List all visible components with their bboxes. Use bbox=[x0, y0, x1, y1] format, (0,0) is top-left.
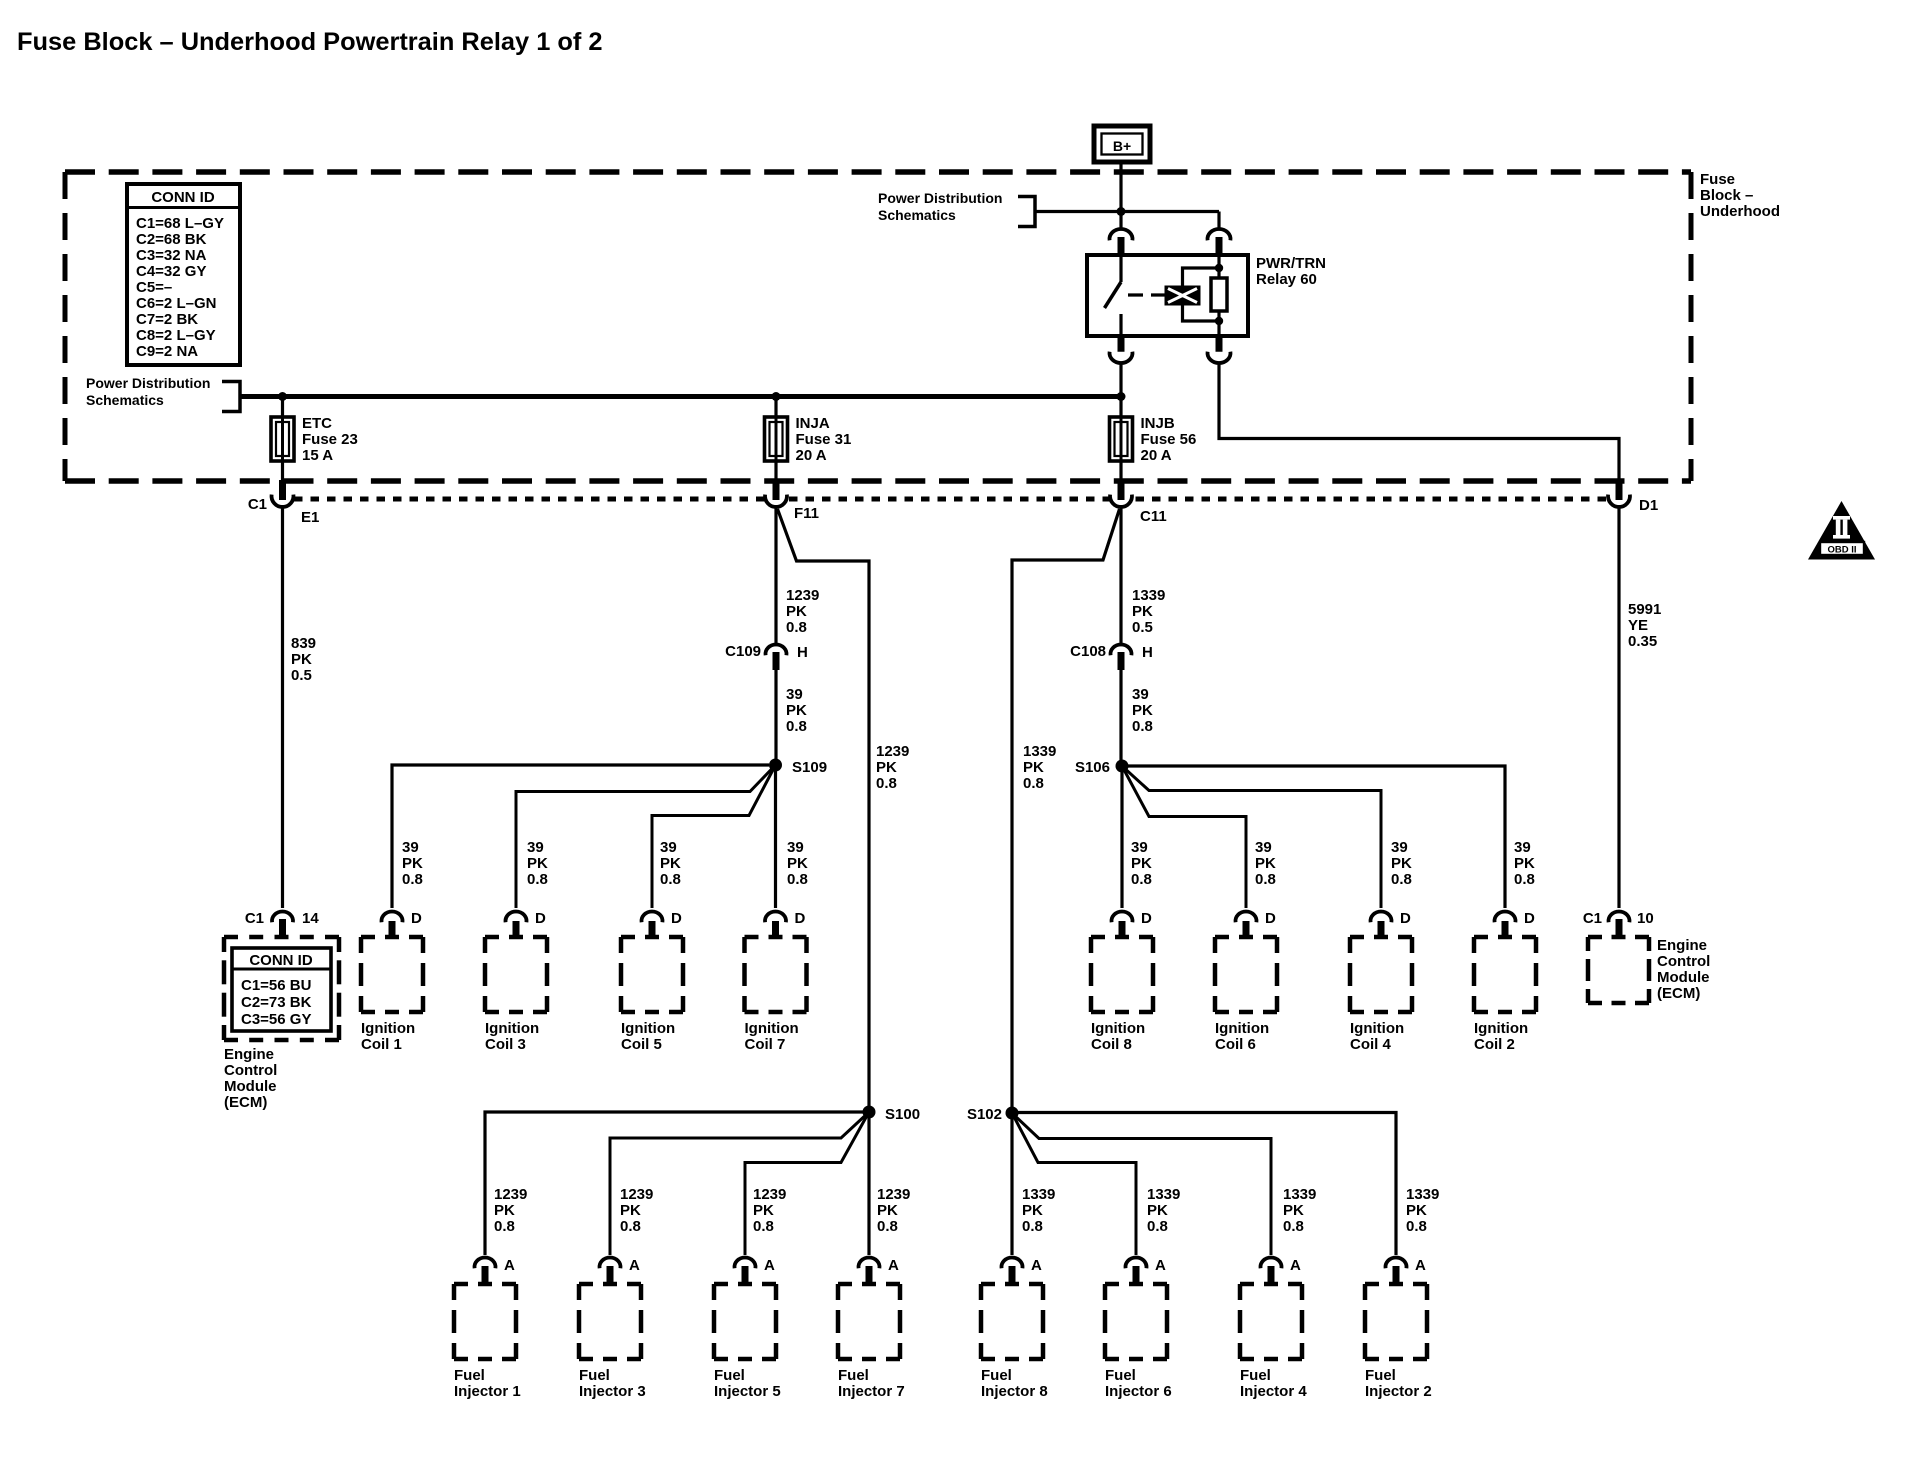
svg-text:Fuse: Fuse bbox=[1700, 171, 1735, 188]
svg-text:CONN ID: CONN ID bbox=[151, 189, 215, 206]
wire S100 to fuel injector 5 bbox=[745, 1112, 869, 1255]
svg-text:PK: PK bbox=[1406, 1202, 1427, 1219]
svg-text:CONN ID: CONN ID bbox=[249, 952, 313, 969]
connector pin A (fuel injector 1) bbox=[475, 1257, 515, 1285]
wire C11 branch to S102 (1339 PK) bbox=[1012, 509, 1120, 1109]
wire S106 to ignition coil 6 bbox=[1122, 766, 1246, 908]
svg-text:C1=68 L–GY: C1=68 L–GY bbox=[136, 215, 224, 232]
svg-text:Injector 7: Injector 7 bbox=[838, 1383, 905, 1400]
wire F11 to C109 (1239 PK) bbox=[774, 505, 777, 645]
svg-text:39: 39 bbox=[1255, 839, 1272, 856]
label 1239 PK 0.8 (injector 3) bbox=[620, 1186, 653, 1235]
svg-text:Control: Control bbox=[1657, 953, 1710, 970]
connector pin D (ignition coil 6) bbox=[1236, 910, 1277, 937]
fuel injector 4 bbox=[1240, 1284, 1307, 1400]
svg-text:Ignition: Ignition bbox=[745, 1020, 799, 1037]
svg-text:H: H bbox=[797, 644, 808, 661]
svg-text:Control: Control bbox=[224, 1062, 277, 1079]
relay resistor bbox=[1211, 255, 1227, 336]
svg-text:0.8: 0.8 bbox=[1022, 1218, 1043, 1235]
connector C1 pin 14 (ECM) bbox=[272, 911, 293, 937]
fuel injector 1 bbox=[454, 1284, 521, 1400]
wire S102 to fuel injector 2 bbox=[1018, 1113, 1396, 1256]
harness interface line (dotted) bbox=[294, 497, 1606, 502]
svg-text:Module: Module bbox=[224, 1078, 277, 1095]
svg-text:PK: PK bbox=[1022, 1202, 1043, 1219]
svg-text:E1: E1 bbox=[301, 509, 319, 526]
svg-text:0.8: 0.8 bbox=[786, 718, 807, 735]
label 1339 PK 0.8 (injector 4) bbox=[1283, 1186, 1316, 1235]
splice S100 bbox=[863, 1106, 876, 1119]
svg-text:0.8: 0.8 bbox=[494, 1218, 515, 1235]
wire C11 to C108 (1339 PK) bbox=[1119, 505, 1122, 645]
junction coil/resistor bottom bbox=[1215, 317, 1223, 325]
svg-text:1239: 1239 bbox=[877, 1186, 910, 1203]
label 39 PK 0.8 (C108-S106) bbox=[1132, 686, 1153, 735]
svg-text:D: D bbox=[1524, 910, 1535, 927]
connector pin D1 (fuse block output) bbox=[1608, 480, 1630, 507]
svg-text:0.8: 0.8 bbox=[877, 1218, 898, 1235]
svg-text:39: 39 bbox=[402, 839, 419, 856]
svg-text:1339: 1339 bbox=[1132, 587, 1165, 604]
relay switched output connector bbox=[1110, 336, 1133, 363]
svg-text:ETC: ETC bbox=[302, 415, 332, 432]
svg-text:Fuel: Fuel bbox=[579, 1367, 610, 1384]
svg-text:C9=2 NA: C9=2 NA bbox=[136, 343, 198, 360]
svg-text:Module: Module bbox=[1657, 969, 1710, 986]
svg-text:Schematics: Schematics bbox=[86, 392, 164, 408]
ignition coil 6 bbox=[1215, 937, 1277, 1053]
svg-text:PK: PK bbox=[753, 1202, 774, 1219]
svg-text:D: D bbox=[1400, 910, 1411, 927]
label 1239 PK 0.8 (injector 1) bbox=[494, 1186, 527, 1235]
svg-text:S106: S106 bbox=[1075, 759, 1110, 776]
fuse block label bbox=[1700, 171, 1780, 220]
svg-text:1339: 1339 bbox=[1022, 1186, 1055, 1203]
svg-text:C4=32 GY: C4=32 GY bbox=[136, 263, 206, 280]
fuel injector 2 bbox=[1365, 1284, 1432, 1400]
svg-text:0.8: 0.8 bbox=[1147, 1218, 1168, 1235]
junction node B+ / relay coil feed bbox=[1117, 207, 1126, 216]
svg-text:PK: PK bbox=[1514, 855, 1535, 872]
svg-text:1339: 1339 bbox=[1406, 1186, 1439, 1203]
svg-text:D: D bbox=[535, 910, 546, 927]
svg-text:PK: PK bbox=[527, 855, 548, 872]
ignition coil 2 bbox=[1474, 937, 1536, 1053]
wire S109 to ignition coil 1 bbox=[392, 765, 769, 908]
ECM (left) label bbox=[224, 1046, 277, 1111]
svg-text:39: 39 bbox=[527, 839, 544, 856]
ignition coil 1 bbox=[361, 937, 423, 1053]
svg-text:10: 10 bbox=[1637, 910, 1654, 927]
wire S106 to ignition coil 8 bbox=[1120, 772, 1123, 908]
svg-text:A: A bbox=[1290, 1257, 1301, 1274]
svg-text:Ignition: Ignition bbox=[485, 1020, 539, 1037]
ECM (right) dashed box bbox=[1588, 937, 1649, 1003]
wire S100 to fuel injector 1 bbox=[485, 1112, 863, 1255]
ignition coil 8 bbox=[1091, 937, 1153, 1053]
svg-text:PK: PK bbox=[494, 1202, 515, 1219]
svg-text:14: 14 bbox=[302, 910, 319, 927]
svg-text:Injector 3: Injector 3 bbox=[579, 1383, 646, 1400]
svg-text:0.8: 0.8 bbox=[1406, 1218, 1427, 1235]
svg-text:Fuel: Fuel bbox=[838, 1367, 869, 1384]
connector pin A (fuel injector 5) bbox=[735, 1257, 775, 1285]
fuse block underhood enclosure (dashed) bbox=[65, 172, 1691, 481]
svg-text:1239: 1239 bbox=[786, 587, 819, 604]
svg-text:PK: PK bbox=[1147, 1202, 1168, 1219]
svg-text:1339: 1339 bbox=[1023, 743, 1056, 760]
svg-text:39: 39 bbox=[786, 686, 803, 703]
label 5991 YE 0.35 bbox=[1628, 601, 1661, 650]
svg-text:39: 39 bbox=[1391, 839, 1408, 856]
svg-text:Ignition: Ignition bbox=[1474, 1020, 1528, 1037]
svg-text:PK: PK bbox=[1255, 855, 1276, 872]
svg-text:A: A bbox=[1415, 1257, 1426, 1274]
svg-text:OBD II: OBD II bbox=[1827, 545, 1856, 556]
svg-text:Fuel: Fuel bbox=[714, 1367, 745, 1384]
connector C109 pin H bbox=[766, 644, 787, 670]
svg-text:Relay 60: Relay 60 bbox=[1256, 271, 1317, 288]
svg-text:A: A bbox=[1031, 1257, 1042, 1274]
svg-text:15 A: 15 A bbox=[302, 447, 333, 464]
svg-text:0.8: 0.8 bbox=[1131, 871, 1152, 888]
svg-text:PK: PK bbox=[1132, 603, 1153, 620]
svg-text:C6=2 L–GN: C6=2 L–GN bbox=[136, 295, 216, 312]
fuel injector 3 bbox=[579, 1284, 646, 1400]
label 39 PK 0.8 (coil 4) bbox=[1391, 839, 1412, 888]
connector pin A (fuel injector 6) bbox=[1126, 1257, 1167, 1285]
svg-text:PK: PK bbox=[787, 855, 808, 872]
svg-text:Coil 8: Coil 8 bbox=[1091, 1036, 1132, 1053]
splice S102 bbox=[1006, 1107, 1019, 1120]
svg-text:PK: PK bbox=[876, 759, 897, 776]
wire relay output to bus bbox=[1119, 362, 1122, 399]
splice S109 bbox=[769, 759, 782, 772]
svg-text:C5=–: C5=– bbox=[136, 279, 172, 296]
svg-text:S100: S100 bbox=[885, 1106, 920, 1123]
svg-text:C1: C1 bbox=[248, 496, 267, 513]
ECM (right) label bbox=[1657, 937, 1710, 1002]
wire D1 to ECM (5991 YE) bbox=[1617, 505, 1620, 908]
svg-text:Injector 5: Injector 5 bbox=[714, 1383, 781, 1400]
svg-text:Coil 7: Coil 7 bbox=[745, 1036, 786, 1053]
CONN ID table (fuse block underhood) bbox=[127, 184, 240, 365]
svg-text:Coil 2: Coil 2 bbox=[1474, 1036, 1515, 1053]
svg-text:C2=73 BK: C2=73 BK bbox=[241, 994, 312, 1011]
label 39 PK 0.8 (coil 5) bbox=[660, 839, 681, 888]
wire S102 to fuel injector 4 bbox=[1012, 1113, 1271, 1255]
svg-text:839: 839 bbox=[291, 635, 316, 652]
fuel injector 7 bbox=[838, 1284, 905, 1400]
svg-text:C11: C11 bbox=[1140, 508, 1167, 525]
svg-text:Fuel: Fuel bbox=[1240, 1367, 1271, 1384]
connector pin D (ignition coil 7) bbox=[765, 910, 806, 937]
label 39 PK 0.8 (coil 6) bbox=[1255, 839, 1276, 888]
svg-text:1339: 1339 bbox=[1283, 1186, 1316, 1203]
label 839 PK 0.5 bbox=[291, 635, 316, 684]
connector pin A (fuel injector 2) bbox=[1386, 1257, 1427, 1285]
label 1339 PK 0.8 (injector 8) bbox=[1022, 1186, 1055, 1235]
connector pin C11 (fuse block output) bbox=[1110, 480, 1132, 507]
connector C1 pin 10 (ECM right) bbox=[1609, 911, 1630, 937]
svg-text:PK: PK bbox=[786, 702, 807, 719]
svg-text:D: D bbox=[795, 910, 806, 927]
power distribution schematics reference (top) bbox=[878, 190, 1002, 223]
label 1339 PK 0.8 (injector 2) bbox=[1406, 1186, 1439, 1235]
wire reference to relay bbox=[1035, 210, 1219, 213]
svg-text:D: D bbox=[1141, 910, 1152, 927]
CONN ID table (ECM) bbox=[232, 948, 331, 1031]
wire relay coil return to D1 bbox=[1219, 362, 1619, 481]
svg-text:PK: PK bbox=[1283, 1202, 1304, 1219]
fuse INJA Fuse 31 20A bbox=[765, 399, 852, 481]
connector C108 pin H bbox=[1111, 644, 1132, 670]
fuse ETC Fuse 23 15A bbox=[271, 399, 358, 481]
svg-text:PK: PK bbox=[1131, 855, 1152, 872]
relay pin 1 connector (contact feed) bbox=[1110, 229, 1133, 256]
svg-text:B+: B+ bbox=[1113, 138, 1131, 154]
connector pin D (ignition coil 1) bbox=[382, 910, 422, 937]
svg-text:A: A bbox=[764, 1257, 775, 1274]
svg-text:39: 39 bbox=[1132, 686, 1149, 703]
svg-text:PWR/TRN: PWR/TRN bbox=[1256, 255, 1326, 272]
junction coil/resistor top bbox=[1215, 264, 1223, 272]
svg-text:1239: 1239 bbox=[876, 743, 909, 760]
junction bus / INJA fuse bbox=[772, 392, 781, 401]
label 1339 PK 0.5 (C11) bbox=[1132, 587, 1165, 636]
svg-text:Coil 4: Coil 4 bbox=[1350, 1036, 1391, 1053]
fuel injector 8 bbox=[981, 1284, 1048, 1400]
svg-text:0.8: 0.8 bbox=[1514, 871, 1535, 888]
svg-text:Fuse Block – Underhood Powertr: Fuse Block – Underhood Powertrain Relay … bbox=[17, 28, 603, 56]
wire S109 to ignition coil 3 bbox=[516, 765, 776, 908]
connector pin A (fuel injector 8) bbox=[1001, 1257, 1042, 1285]
wire C108 to S106 (39 PK) bbox=[1119, 670, 1122, 761]
wire S109 to ignition coil 5 bbox=[652, 765, 776, 908]
label 39 PK 0.8 (coil 3) bbox=[527, 839, 548, 888]
svg-text:C3=32 NA: C3=32 NA bbox=[136, 247, 207, 264]
svg-text:0.8: 0.8 bbox=[787, 871, 808, 888]
label 1239 PK 0.8 (F11) bbox=[786, 587, 819, 636]
label 1339 PK 0.8 (injector 6) bbox=[1147, 1186, 1180, 1235]
bracket (left reference) bbox=[222, 382, 240, 412]
svg-text:PK: PK bbox=[1132, 702, 1153, 719]
svg-text:A: A bbox=[1155, 1257, 1166, 1274]
connector pin D (ignition coil 2) bbox=[1495, 910, 1536, 937]
svg-text:0.8: 0.8 bbox=[402, 871, 423, 888]
ignition coil 4 bbox=[1350, 937, 1412, 1053]
label 39 PK 0.8 (C109-S109) bbox=[786, 686, 807, 735]
ECM (left) dashed box bbox=[224, 937, 339, 1040]
svg-text:20 A: 20 A bbox=[796, 447, 827, 464]
svg-text:PK: PK bbox=[1023, 759, 1044, 776]
svg-text:D: D bbox=[671, 910, 682, 927]
wire C109 to S109 (39 PK) bbox=[774, 670, 777, 760]
svg-text:S109: S109 bbox=[792, 759, 827, 776]
svg-text:Coil 5: Coil 5 bbox=[621, 1036, 662, 1053]
svg-text:0.8: 0.8 bbox=[876, 775, 897, 792]
svg-text:0.8: 0.8 bbox=[1132, 718, 1153, 735]
connector pin A (fuel injector 3) bbox=[600, 1257, 641, 1285]
connector pin A (fuel injector 4) bbox=[1261, 1257, 1302, 1285]
svg-text:39: 39 bbox=[1514, 839, 1531, 856]
wire S102 to fuel injector 6 bbox=[1012, 1113, 1136, 1255]
label 39 PK 0.8 (coil 7) bbox=[787, 839, 808, 888]
svg-text:Engine: Engine bbox=[224, 1046, 274, 1063]
junction bus / ETC fuse bbox=[278, 392, 287, 401]
svg-text:INJB: INJB bbox=[1141, 415, 1175, 432]
svg-text:Power Distribution: Power Distribution bbox=[86, 375, 210, 391]
svg-text:Fuel: Fuel bbox=[1105, 1367, 1136, 1384]
svg-text:Underhood: Underhood bbox=[1700, 203, 1780, 220]
svg-text:1239: 1239 bbox=[620, 1186, 653, 1203]
label 39 PK 0.8 (coil 8) bbox=[1131, 839, 1152, 888]
connector pin F11 (fuse block output) bbox=[765, 480, 787, 507]
label 1239 PK 0.8 (S100 feeder) bbox=[876, 743, 909, 792]
svg-text:A: A bbox=[629, 1257, 640, 1274]
svg-text:Coil 1: Coil 1 bbox=[361, 1036, 402, 1053]
svg-text:C109: C109 bbox=[725, 643, 761, 660]
connector C1 pin E1 (fuse block output) bbox=[271, 480, 293, 507]
wire S100 to fuel injector 3 bbox=[610, 1112, 869, 1255]
svg-text:0.5: 0.5 bbox=[291, 667, 312, 684]
wire S102 to fuel injector 8 bbox=[1010, 1119, 1013, 1255]
label 1239 PK 0.8 (injector 7) bbox=[877, 1186, 910, 1235]
label 39 PK 0.8 (coil 1) bbox=[402, 839, 423, 888]
OBD II symbol bbox=[1808, 501, 1875, 560]
svg-text:0.35: 0.35 bbox=[1628, 633, 1657, 650]
svg-text:PK: PK bbox=[291, 651, 312, 668]
wire S109 to ignition coil 7 bbox=[774, 771, 777, 908]
svg-text:C7=2 BK: C7=2 BK bbox=[136, 311, 198, 328]
svg-text:C1: C1 bbox=[245, 910, 264, 927]
label 1239 PK 0.8 (injector 5) bbox=[753, 1186, 786, 1235]
label 1339 PK 0.8 (S102 feeder) bbox=[1023, 743, 1056, 792]
svg-text:Ignition: Ignition bbox=[1350, 1020, 1404, 1037]
svg-text:Fuse 23: Fuse 23 bbox=[302, 431, 358, 448]
title bbox=[17, 28, 603, 56]
splice S106 bbox=[1116, 760, 1129, 773]
svg-text:PK: PK bbox=[402, 855, 423, 872]
svg-text:0.5: 0.5 bbox=[1132, 619, 1153, 636]
svg-text:C3=56 GY: C3=56 GY bbox=[241, 1011, 311, 1028]
power distribution schematics reference (left) bbox=[86, 375, 210, 408]
svg-text:1239: 1239 bbox=[494, 1186, 527, 1203]
svg-text:Engine: Engine bbox=[1657, 937, 1707, 954]
svg-text:C8=2 L–GY: C8=2 L–GY bbox=[136, 327, 216, 344]
svg-text:Coil 3: Coil 3 bbox=[485, 1036, 526, 1053]
power feed bus bbox=[240, 394, 1121, 399]
svg-text:Fuel: Fuel bbox=[981, 1367, 1012, 1384]
svg-text:D1: D1 bbox=[1639, 497, 1658, 514]
svg-text:Fuse 56: Fuse 56 bbox=[1141, 431, 1197, 448]
wire S100 to fuel injector 7 bbox=[867, 1118, 870, 1255]
wire S106 to ignition coil 4 bbox=[1122, 766, 1381, 908]
connector pin D (ignition coil 4) bbox=[1371, 910, 1412, 937]
ignition coil 3 bbox=[485, 937, 547, 1053]
svg-text:39: 39 bbox=[787, 839, 804, 856]
relay label bbox=[1256, 255, 1326, 288]
connector pin D (ignition coil 5) bbox=[642, 910, 683, 937]
svg-text:PK: PK bbox=[1391, 855, 1412, 872]
svg-text:5991: 5991 bbox=[1628, 601, 1661, 618]
relay coil pin connector bbox=[1208, 229, 1231, 256]
svg-text:Ignition: Ignition bbox=[1091, 1020, 1145, 1037]
relay actuator (dashed link) bbox=[1128, 293, 1165, 296]
wire 839 PK 0.5 bbox=[281, 505, 284, 908]
label 39 PK 0.8 (coil 2) bbox=[1514, 839, 1535, 888]
svg-text:Ignition: Ignition bbox=[1215, 1020, 1269, 1037]
svg-text:39: 39 bbox=[1131, 839, 1148, 856]
svg-text:Coil 6: Coil 6 bbox=[1215, 1036, 1256, 1053]
svg-text:1239: 1239 bbox=[753, 1186, 786, 1203]
svg-text:Injector 8: Injector 8 bbox=[981, 1383, 1048, 1400]
svg-text:0.8: 0.8 bbox=[1391, 871, 1412, 888]
svg-text:C108: C108 bbox=[1070, 643, 1106, 660]
svg-text:Ignition: Ignition bbox=[621, 1020, 675, 1037]
fuse INJB Fuse 56 20A bbox=[1110, 399, 1197, 481]
wire F11 branch to S100 (1239 PK) bbox=[778, 509, 870, 1108]
svg-text:D: D bbox=[411, 910, 422, 927]
svg-text:(ECM): (ECM) bbox=[224, 1094, 267, 1111]
svg-text:0.8: 0.8 bbox=[620, 1218, 641, 1235]
relay coil loop wires bbox=[1183, 268, 1220, 321]
svg-text:0.8: 0.8 bbox=[786, 619, 807, 636]
relay coil return connector bbox=[1208, 336, 1231, 363]
relay switch contact bbox=[1105, 255, 1122, 336]
svg-text:PK: PK bbox=[620, 1202, 641, 1219]
connector pin A (fuel injector 7) bbox=[859, 1257, 900, 1285]
svg-text:PK: PK bbox=[660, 855, 681, 872]
svg-text:(ECM): (ECM) bbox=[1657, 985, 1700, 1002]
svg-text:0.8: 0.8 bbox=[1283, 1218, 1304, 1235]
svg-text:0.8: 0.8 bbox=[753, 1218, 774, 1235]
wire B+ down to relay bbox=[1119, 162, 1122, 229]
svg-text:INJA: INJA bbox=[796, 415, 830, 432]
svg-text:Fuse 31: Fuse 31 bbox=[796, 431, 852, 448]
connector pin D (ignition coil 8) bbox=[1112, 910, 1153, 937]
svg-text:0.8: 0.8 bbox=[660, 871, 681, 888]
svg-text:0.8: 0.8 bbox=[1023, 775, 1044, 792]
svg-text:0.8: 0.8 bbox=[1255, 871, 1276, 888]
wire down to relay coil pin bbox=[1217, 212, 1220, 230]
relay PWR/TRN Relay 60 box bbox=[1087, 255, 1248, 336]
fuel injector 6 bbox=[1105, 1284, 1172, 1400]
svg-text:A: A bbox=[888, 1257, 899, 1274]
svg-text:A: A bbox=[504, 1257, 515, 1274]
svg-text:1339: 1339 bbox=[1147, 1186, 1180, 1203]
svg-text:S102: S102 bbox=[967, 1106, 1002, 1123]
svg-text:PK: PK bbox=[877, 1202, 898, 1219]
svg-text:Fuel: Fuel bbox=[454, 1367, 485, 1384]
svg-text:C2=68 BK: C2=68 BK bbox=[136, 231, 207, 248]
svg-text:39: 39 bbox=[660, 839, 677, 856]
svg-text:H: H bbox=[1142, 644, 1153, 661]
svg-text:PK: PK bbox=[786, 603, 807, 620]
svg-text:YE: YE bbox=[1628, 617, 1648, 634]
B+ battery feed terminal bbox=[1094, 126, 1150, 162]
fuel injector 5 bbox=[714, 1284, 781, 1400]
svg-text:C1: C1 bbox=[1583, 910, 1602, 927]
svg-text:D: D bbox=[1265, 910, 1276, 927]
svg-text:Fuel: Fuel bbox=[1365, 1367, 1396, 1384]
svg-text:Schematics: Schematics bbox=[878, 207, 956, 223]
wire S106 to ignition coil 2 bbox=[1128, 766, 1505, 908]
junction bus / INJB fuse bbox=[1117, 392, 1126, 401]
svg-text:Injector 6: Injector 6 bbox=[1105, 1383, 1172, 1400]
svg-text:Injector 2: Injector 2 bbox=[1365, 1383, 1432, 1400]
